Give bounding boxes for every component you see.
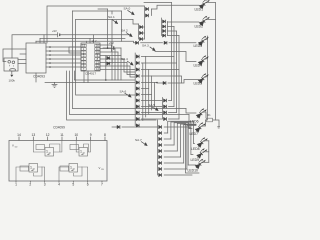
svg-text:8: 8 — [104, 133, 106, 137]
svg-text:SA.5: SA.5 — [148, 103, 155, 107]
svg-text:1: 1 — [30, 165, 32, 169]
svg-text:LED9: LED9 — [191, 158, 200, 162]
svg-text:SA.1: SA.1 — [108, 15, 115, 19]
svg-text:4: 4 — [58, 182, 60, 186]
svg-text:LED8: LED8 — [191, 147, 200, 151]
svg-text:LED2: LED2 — [195, 25, 204, 29]
svg-text:CD4017: CD4017 — [85, 71, 96, 75]
svg-text:6: 6 — [87, 182, 89, 186]
svg-text:CD4093: CD4093 — [33, 75, 45, 79]
svg-text:9: 9 — [90, 133, 92, 137]
svg-text:10: 10 — [74, 133, 78, 137]
svg-text:13: 13 — [31, 133, 35, 137]
svg-text:LED7: LED7 — [190, 132, 199, 136]
svg-text:LED10: LED10 — [188, 168, 198, 172]
svg-text:CD4099: CD4099 — [53, 126, 65, 130]
svg-text:11: 11 — [60, 133, 64, 137]
svg-text:14: 14 — [17, 133, 21, 137]
svg-text:LED5: LED5 — [194, 82, 203, 86]
svg-text:SA.3: SA.3 — [142, 43, 149, 47]
svg-text:12: 12 — [46, 133, 50, 137]
svg-text:1: 1 — [70, 165, 72, 169]
svg-text:LED4: LED4 — [194, 64, 203, 68]
svg-text:3: 3 — [44, 182, 46, 186]
svg-text:16 V: 16 V — [92, 40, 97, 43]
svg-text:1: 1 — [80, 149, 82, 153]
svg-text:7: 7 — [101, 182, 103, 186]
svg-text:LED6: LED6 — [190, 120, 199, 124]
svg-text:SA.7: SA.7 — [135, 138, 142, 142]
svg-text:5: 5 — [72, 182, 74, 186]
svg-text:2: 2 — [29, 182, 31, 186]
svg-text:1: 1 — [15, 182, 17, 186]
svg-text:LED3: LED3 — [194, 44, 203, 48]
svg-text:+9V: +9V — [109, 41, 114, 45]
svg-text:+9V: +9V — [52, 29, 57, 33]
svg-text:SA.0: SA.0 — [124, 6, 131, 10]
svg-text:100k: 100k — [9, 79, 16, 83]
svg-text:SA.4: SA.4 — [121, 57, 128, 61]
svg-text:1: 1 — [46, 149, 48, 153]
svg-text:V: V — [99, 166, 101, 170]
svg-text:V: V — [12, 144, 14, 148]
svg-text:LED1: LED1 — [195, 8, 204, 12]
svg-text:SA.2: SA.2 — [121, 29, 128, 33]
svg-text:SA.6: SA.6 — [120, 90, 127, 94]
